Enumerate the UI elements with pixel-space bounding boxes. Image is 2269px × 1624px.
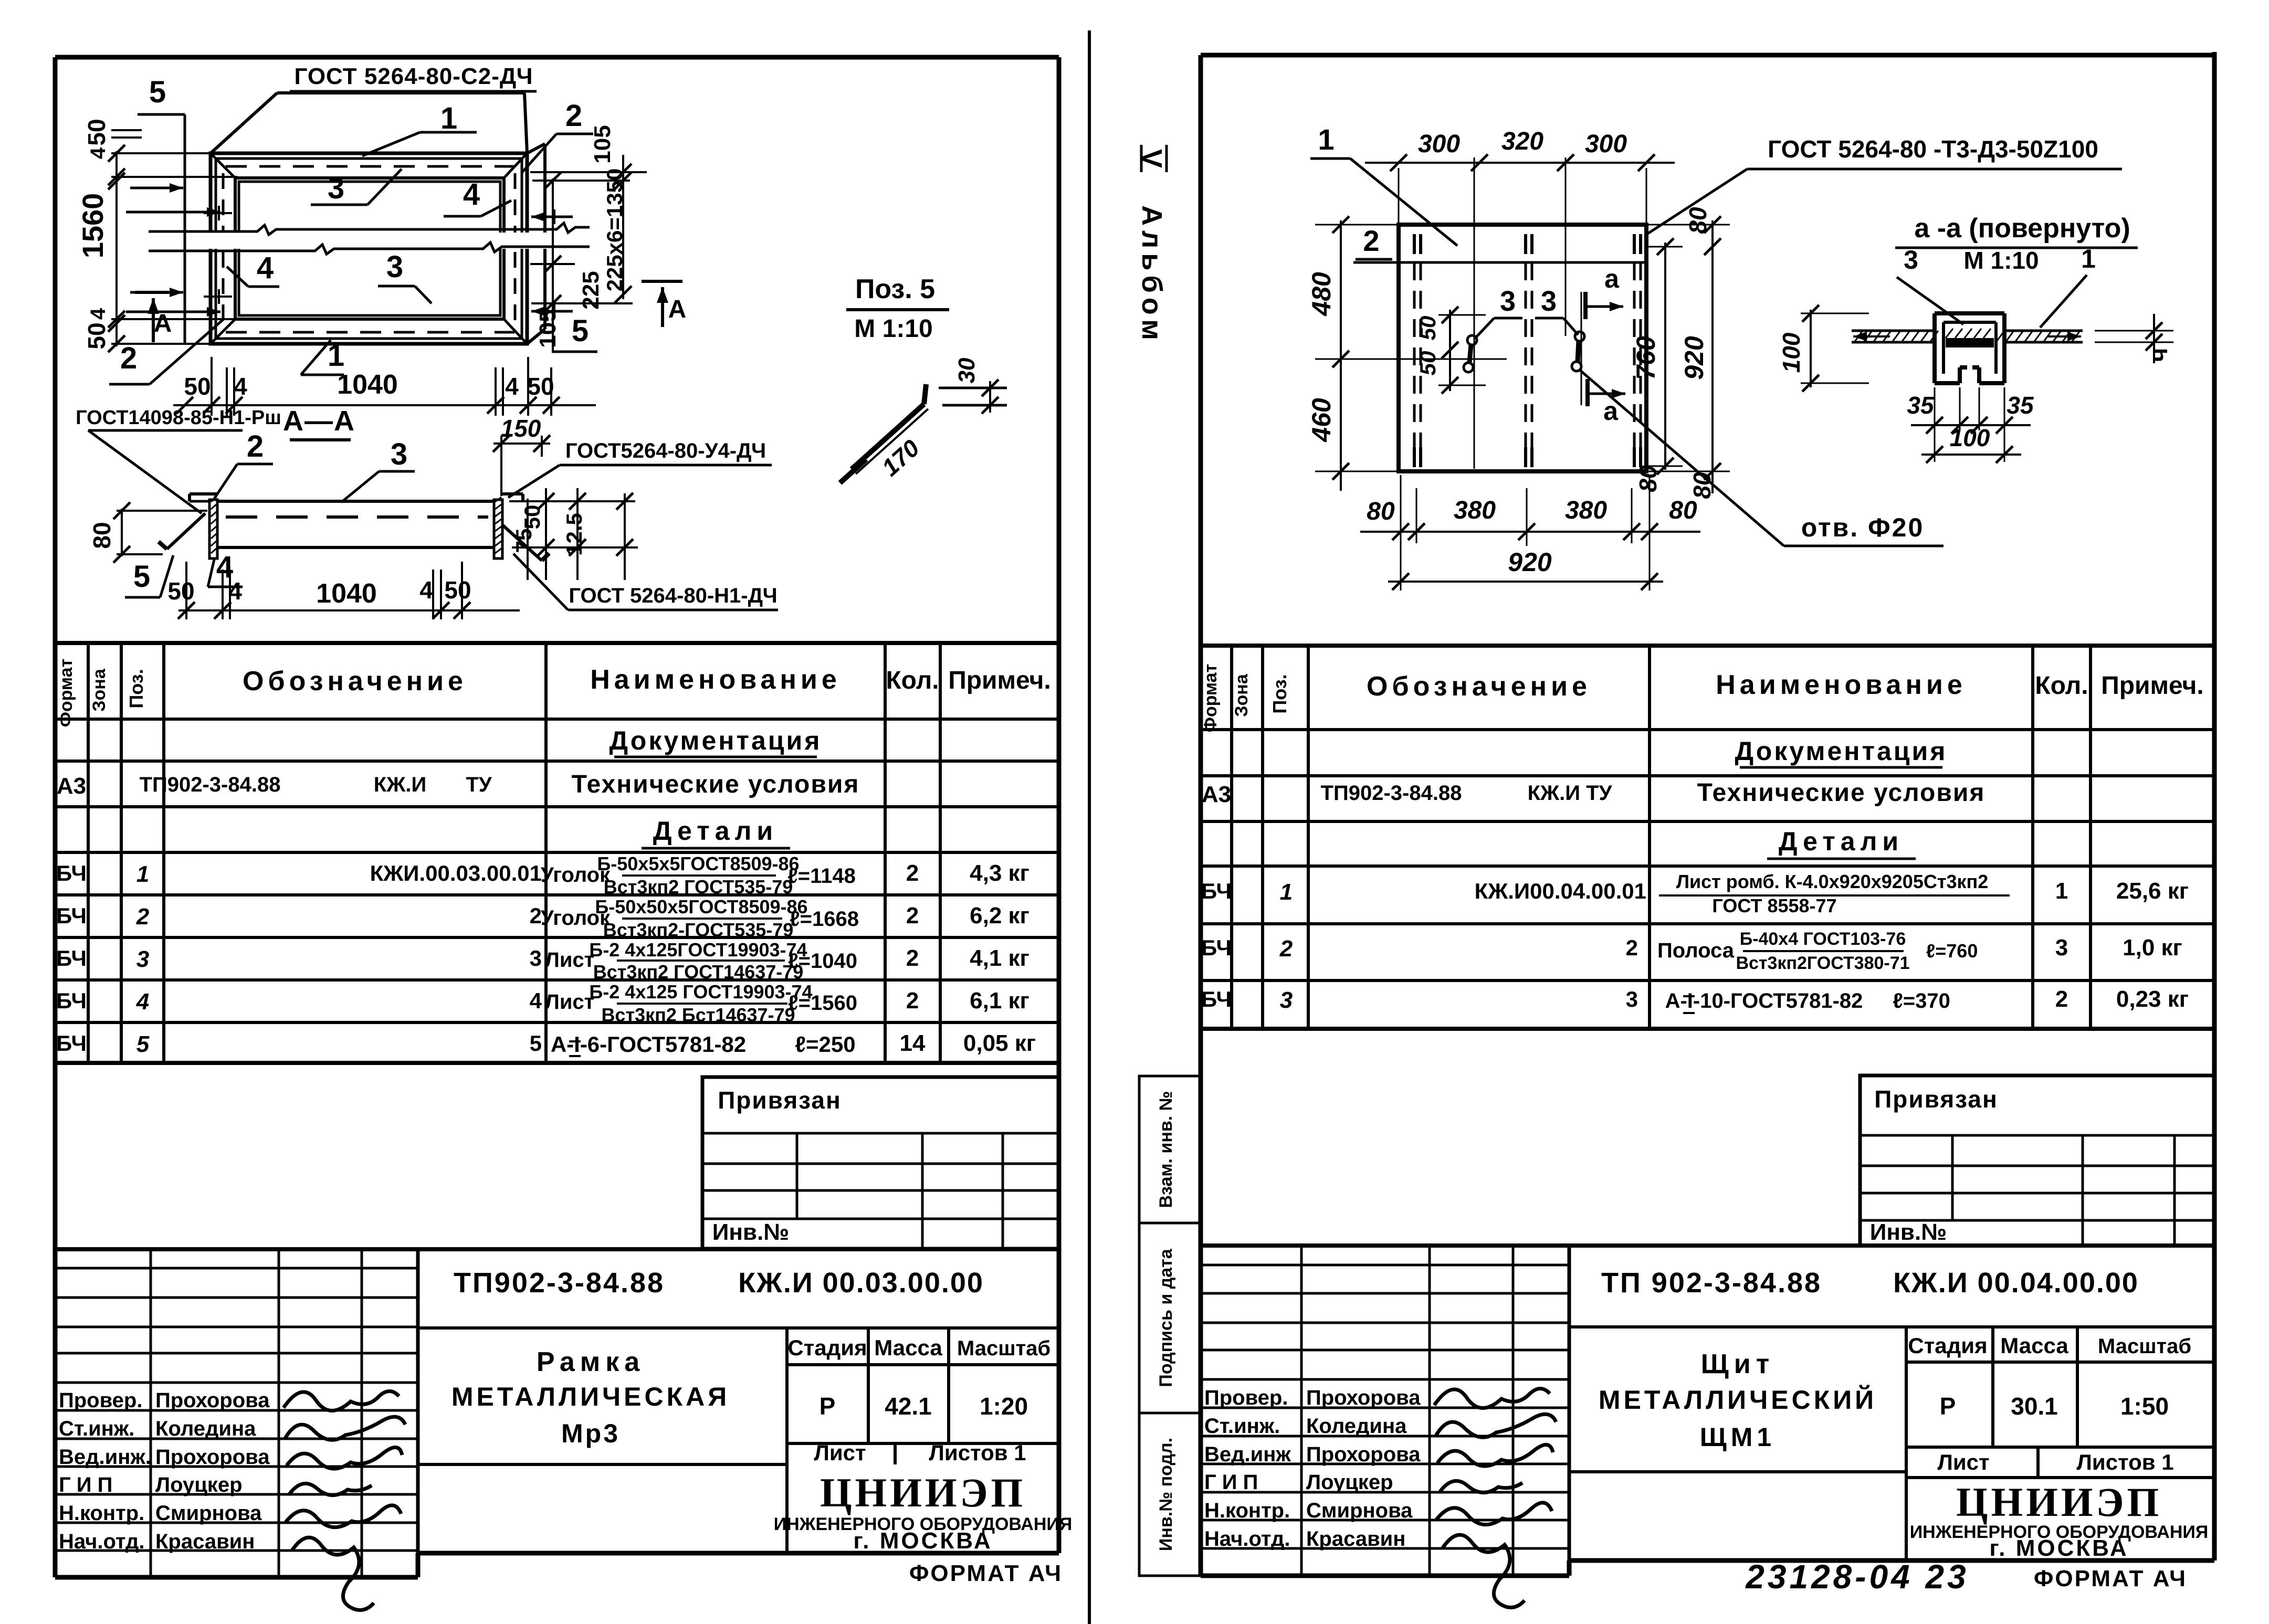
right table header kol — [2035, 672, 2088, 700]
dim text 75 sec — [511, 529, 536, 553]
svg-text:Зона: Зона — [1232, 673, 1252, 717]
svg-text:Вст3кп2 ГОСТ535-79: Вст3кп2 ГОСТ535-79 — [604, 876, 793, 898]
section plate — [217, 501, 494, 547]
svg-text:1:50: 1:50 — [2120, 1393, 2169, 1420]
svg-text:Ст.инж.: Ст.инж. — [1204, 1415, 1280, 1438]
svg-text:Мр3: Мр3 — [561, 1419, 620, 1448]
section mark a lower — [1588, 379, 1625, 426]
svg-text:3: 3 — [136, 946, 149, 972]
svg-text:5: 5 — [136, 1031, 150, 1057]
left titleblock left columns — [55, 1249, 418, 1577]
svg-text:50: 50 — [444, 576, 471, 604]
svg-text:Привязан: Привязан — [718, 1087, 842, 1114]
svg-text:Детали: Детали — [653, 816, 778, 846]
svg-text:2: 2 — [906, 860, 919, 886]
svg-text:А3: А3 — [57, 773, 86, 799]
svg-text:Поз.: Поз. — [1269, 674, 1290, 713]
svg-text:3: 3 — [1541, 286, 1557, 317]
dim 4 channel — [2095, 314, 2173, 363]
dim text 225x6 — [602, 168, 627, 292]
frame outer rectangle — [211, 153, 527, 344]
svg-text:3: 3 — [328, 171, 344, 205]
section left angle hatch — [211, 497, 216, 553]
svg-text:5: 5 — [530, 1031, 542, 1056]
svg-text:Красавин: Красавин — [155, 1530, 255, 1553]
svg-text:100: 100 — [1778, 332, 1805, 373]
dim 80 bottom right — [1634, 465, 1716, 499]
svg-text:ГОСТ 8558-77: ГОСТ 8558-77 — [1712, 895, 1836, 916]
frame inner opening — [235, 178, 504, 319]
svg-text:4: 4 — [234, 373, 247, 400]
dim 150 section — [493, 415, 550, 496]
left name ramka — [451, 1347, 730, 1448]
svg-text:3: 3 — [391, 437, 407, 471]
right table header naimenovanie — [1716, 670, 1967, 700]
svg-text:Провер.: Провер. — [59, 1389, 142, 1412]
label 3 upper — [311, 169, 402, 205]
svg-text:МЕТАЛЛИЧЕСКИЙ: МЕТАЛЛИЧЕСКИЙ — [1599, 1385, 1877, 1415]
svg-text:300: 300 — [1418, 130, 1460, 158]
svg-text:300: 300 — [1585, 130, 1627, 158]
svg-text:ФОРМАТ АЧ: ФОРМАТ АЧ — [909, 1560, 1063, 1586]
weld flag left — [159, 513, 205, 549]
svg-text:ч: ч — [2145, 348, 2172, 362]
label 3 section — [341, 437, 415, 502]
rod detail right — [1572, 332, 1584, 371]
channel bar pos3 — [1946, 338, 1994, 347]
label 4 section — [208, 550, 243, 587]
svg-text:М 1:10: М 1:10 — [1963, 247, 2039, 274]
svg-text:Документация: Документация — [1735, 736, 1948, 766]
frame corner mitre BR — [503, 318, 526, 343]
svg-text:А: А — [154, 310, 172, 338]
svg-text:Обозначение: Обозначение — [243, 666, 467, 697]
dim text 1560 — [76, 193, 109, 259]
otv leader — [1579, 370, 1784, 546]
svg-text:2: 2 — [906, 945, 919, 971]
svg-text:Наименование: Наименование — [1716, 670, 1967, 700]
svg-text:А: А — [668, 296, 687, 323]
page divider between sheets — [1088, 30, 1091, 1624]
svg-text:Вст3кп2 ГОСТ14637-79: Вст3кп2 ГОСТ14637-79 — [593, 961, 804, 983]
svg-text:105: 105 — [535, 309, 561, 347]
svg-text:ФОРМАТ АЧ: ФОРМАТ АЧ — [2034, 1566, 2187, 1591]
svg-text:Поз.: Поз. — [125, 669, 147, 708]
right doc number — [1601, 1267, 2139, 1299]
svg-text:5: 5 — [149, 75, 166, 109]
svg-text:Б-2 4х125 ГОСТ19903-74: Б-2 4х125 ГОСТ19903-74 — [589, 981, 812, 1003]
svg-text:4: 4 — [87, 308, 110, 320]
svg-text:Вед.инж: Вед.инж — [1204, 1443, 1291, 1466]
svg-text:50: 50 — [184, 373, 211, 400]
svg-text:50: 50 — [83, 119, 110, 145]
dim vert right2 — [622, 155, 624, 299]
left row 2 — [56, 896, 1030, 941]
svg-text:1040: 1040 — [337, 370, 398, 400]
svg-text:ℓ=1040: ℓ=1040 — [788, 950, 857, 973]
svg-text:КЖ.И ТУ: КЖ.И ТУ — [1528, 782, 1613, 805]
svg-text:Документация: Документация — [610, 726, 822, 755]
svg-text:2: 2 — [1626, 935, 1638, 960]
svg-text:г. МОСКВА: г. МОСКВА — [853, 1528, 992, 1554]
dim text 105 br — [535, 309, 561, 347]
svg-text:2: 2 — [1279, 936, 1293, 962]
label 5 right — [552, 314, 597, 352]
dim line 920 — [1388, 547, 1663, 590]
svg-text:460: 460 — [1307, 398, 1336, 442]
left table header poz — [125, 669, 147, 708]
svg-text:Обозначение: Обозначение — [1367, 671, 1591, 702]
svg-text:Н.контр.: Н.контр. — [1204, 1499, 1290, 1522]
margin stamp inv — [1139, 1413, 1202, 1576]
aa title — [1895, 213, 2138, 248]
weld label GOST 5264-80-C2-D4 — [290, 64, 537, 91]
right stadia header — [1908, 1333, 2191, 1358]
svg-text:Формат: Формат — [1201, 664, 1221, 732]
left titleblock outline — [55, 1247, 1059, 1251]
svg-text:Масса: Масса — [2000, 1333, 2068, 1358]
right privyazan box — [1860, 1075, 2214, 1246]
label 2 bottom left — [109, 319, 224, 384]
svg-text:380: 380 — [1454, 497, 1496, 524]
left table header naimenovanie — [590, 665, 841, 695]
right table dokumentacia — [1735, 736, 1948, 767]
dim 50 50 rods — [1415, 307, 1486, 394]
svg-text:30.1: 30.1 — [2011, 1393, 2058, 1420]
right privyazan grid — [1860, 1135, 2214, 1246]
svg-text:Детали: Детали — [1779, 827, 1904, 856]
svg-text:80: 80 — [1684, 207, 1711, 234]
svg-text:225: 225 — [578, 271, 604, 309]
svg-text:380: 380 — [1565, 497, 1607, 524]
dim line left vertical — [115, 151, 118, 346]
svg-text:35: 35 — [1907, 392, 1935, 419]
dim 50 br — [527, 373, 554, 400]
left privyazan label — [718, 1087, 842, 1114]
svg-text:г. МОСКВА: г. МОСКВА — [1989, 1535, 2128, 1561]
svg-text:760: 760 — [1631, 336, 1661, 380]
channel outer — [1935, 313, 2004, 383]
dim ext bottom plate — [1401, 475, 1650, 590]
dim 50 bl — [184, 373, 211, 400]
svg-text:ТП 902-3-84.88: ТП 902-3-84.88 — [1601, 1267, 1822, 1299]
svg-text:Вст3кп2-ГОСТ535-79: Вст3кп2-ГОСТ535-79 — [603, 919, 794, 941]
dim ext bottom section — [186, 562, 462, 619]
left stadia header — [787, 1335, 1051, 1360]
svg-text:А-I-10-ГОСТ5781-82: А-I-10-ГОСТ5781-82 — [1665, 989, 1863, 1013]
svg-text:ГОСТ5264-80-У4-ДЧ: ГОСТ5264-80-У4-ДЧ — [565, 439, 766, 462]
frame second line — [216, 159, 522, 339]
svg-text:3: 3 — [386, 250, 403, 284]
svg-text:80: 80 — [1669, 497, 1697, 524]
svg-text:М 1:10: М 1:10 — [854, 315, 932, 343]
svg-text:Масштаб: Масштаб — [957, 1337, 1051, 1360]
break band — [149, 223, 590, 254]
svg-text:2: 2 — [906, 988, 919, 1014]
svg-text:3: 3 — [1626, 987, 1638, 1011]
right names — [1306, 1386, 1421, 1551]
dim 320 — [1501, 128, 1543, 155]
svg-text:БЧ: БЧ — [56, 903, 87, 928]
weld tick left upper — [204, 206, 232, 220]
dim line bottom plate — [1360, 523, 1700, 540]
left table header zona — [89, 668, 109, 712]
svg-text:Альбом: Альбом — [1136, 205, 1168, 345]
svg-text:Р: Р — [820, 1393, 836, 1420]
dim 4 bl — [234, 373, 247, 400]
right signatures — [1434, 1388, 1556, 1607]
left roles — [59, 1389, 151, 1553]
dim ext right — [530, 172, 647, 303]
dim 4 secl — [228, 577, 242, 605]
svg-text:3: 3 — [1500, 286, 1516, 317]
svg-text:Н.контр.: Н.контр. — [59, 1502, 144, 1525]
svg-text:Наименование: Наименование — [590, 665, 841, 695]
label 2 top right — [521, 99, 593, 173]
left table detali — [642, 816, 790, 848]
plate dashed bar mid — [1526, 234, 1532, 467]
left privyazan box — [702, 1077, 1059, 1249]
svg-text:50: 50 — [167, 577, 194, 605]
svg-text:1040: 1040 — [316, 578, 377, 609]
section right angle — [494, 494, 523, 558]
left row 5 — [56, 1030, 1036, 1057]
svg-text:Лист: Лист — [545, 990, 595, 1014]
hatched plate strip — [1852, 329, 2083, 342]
box lid top face — [211, 93, 527, 153]
dim 80 bl — [1367, 498, 1395, 525]
right side arrows — [531, 209, 573, 319]
left list row — [814, 1440, 1026, 1465]
left stadia values — [820, 1393, 1028, 1420]
svg-text:1,0 кг: 1,0 кг — [2123, 935, 2182, 961]
svg-text:ЦНИИЭП: ЦНИИЭП — [820, 1470, 1026, 1515]
GOST U4 label — [508, 439, 772, 498]
svg-text:1: 1 — [2081, 244, 2096, 273]
svg-text:5: 5 — [572, 314, 589, 348]
dim right plate 920v — [1679, 216, 1721, 493]
dim 170 rod — [876, 434, 925, 481]
svg-text:2: 2 — [120, 341, 137, 375]
left row 4 — [56, 981, 1030, 1026]
right org — [1910, 1479, 2209, 1561]
left table row A3 — [57, 771, 860, 799]
svg-text:50: 50 — [527, 373, 554, 400]
svg-text:ℓ=370: ℓ=370 — [1893, 989, 1950, 1013]
svg-text:Примеч.: Примеч. — [948, 667, 1051, 694]
dim text 12.5 sec — [562, 513, 586, 556]
svg-text:Прохорова: Прохорова — [155, 1389, 270, 1412]
svg-text:80: 80 — [1367, 498, 1395, 525]
dim right plate 760 — [1631, 238, 1674, 474]
svg-text:4: 4 — [419, 576, 433, 604]
dim line top plate — [1365, 154, 1675, 171]
svg-text:2: 2 — [136, 904, 150, 930]
A-A title — [283, 405, 355, 440]
svg-text:50: 50 — [520, 505, 544, 530]
svg-text:КЖ.И: КЖ.И — [374, 773, 426, 796]
right format label — [2034, 1566, 2187, 1591]
svg-text:1: 1 — [1280, 879, 1293, 905]
svg-text:2: 2 — [1363, 224, 1379, 257]
dim 30 rod — [939, 357, 1007, 414]
dim 380 r — [1565, 497, 1607, 524]
svg-text:2: 2 — [2055, 986, 2068, 1012]
right stadia values — [1940, 1393, 2169, 1420]
svg-text:Ст.инж.: Ст.инж. — [59, 1417, 134, 1440]
svg-text:23128-04 23: 23128-04 23 — [1745, 1558, 1969, 1596]
svg-text:1560: 1560 — [76, 193, 109, 259]
right privyazan label — [1874, 1085, 1998, 1113]
svg-text:Вед.инж.: Вед.инж. — [59, 1446, 151, 1469]
dim 4 secr — [419, 576, 433, 604]
label 1 plate — [1310, 123, 1457, 246]
dim 50 secl — [167, 577, 194, 605]
svg-text:4,1 кг: 4,1 кг — [970, 945, 1030, 971]
dim ticks bottom section — [178, 602, 470, 619]
right table header poz — [1269, 674, 1290, 713]
svg-text:Формат: Формат — [56, 659, 76, 727]
svg-text:Взам. инв. №: Взам. инв. № — [1156, 1091, 1176, 1208]
section plate dashed axis — [226, 515, 488, 519]
svg-text:1: 1 — [1318, 123, 1334, 156]
svg-text:Г И П: Г И П — [1204, 1471, 1258, 1494]
svg-text:0,23 кг: 0,23 кг — [2116, 986, 2189, 1012]
svg-text:ℓ=250: ℓ=250 — [795, 1032, 855, 1057]
svg-text:3: 3 — [1904, 245, 1918, 275]
svg-text:Технические условия: Технические условия — [1697, 779, 1986, 807]
pos5 rod — [852, 384, 928, 474]
svg-text:Лист: Лист — [1937, 1450, 1989, 1474]
dim 80 top right — [1684, 207, 1721, 255]
right list row — [1937, 1450, 2173, 1474]
svg-text:КЖ.И 00.03.00.00: КЖ.И 00.03.00.00 — [738, 1267, 984, 1299]
svg-text:Стадия: Стадия — [1908, 1333, 1987, 1358]
svg-text:1:20: 1:20 — [980, 1393, 1028, 1420]
svg-text:105: 105 — [590, 125, 615, 163]
left table grid — [55, 643, 1059, 1063]
svg-text:БЧ: БЧ — [56, 1031, 87, 1056]
svg-text:ℓ=1668: ℓ=1668 — [790, 908, 859, 931]
svg-text:Коледина: Коледина — [155, 1417, 256, 1440]
svg-text:50: 50 — [83, 322, 110, 349]
label 3 rod left — [1476, 286, 1522, 337]
left table header kol — [886, 667, 939, 694]
svg-text:а: а — [1604, 264, 1620, 293]
svg-text:14: 14 — [900, 1030, 926, 1056]
left sheet frame — [55, 57, 1059, 1577]
dim 460 — [1307, 398, 1336, 442]
svg-text:2: 2 — [530, 903, 542, 928]
svg-text:Инв.№ подл.: Инв.№ подл. — [1156, 1438, 1176, 1551]
frame dashed contour — [223, 166, 515, 332]
svg-text:Б-50х50х5ГОСТ8509-86: Б-50х50х5ГОСТ8509-86 — [595, 896, 807, 918]
aa leader 3 — [1897, 277, 1963, 324]
otv label — [1784, 513, 1944, 546]
svg-text:МЕТАЛЛИЧЕСКАЯ: МЕТАЛЛИЧЕСКАЯ — [451, 1382, 730, 1411]
svg-text:3: 3 — [530, 946, 542, 971]
svg-text:Нач.отд.: Нач.отд. — [59, 1530, 144, 1553]
dim ext bottom topview — [212, 357, 551, 416]
right table grid — [1201, 646, 2214, 1029]
right titleblock outline — [1201, 1243, 2214, 1248]
left table header format — [56, 659, 76, 727]
svg-text:920: 920 — [1679, 336, 1709, 380]
left names — [155, 1389, 270, 1553]
svg-text:Поз. 5: Поз. 5 — [855, 274, 935, 304]
dim text 4 bottom — [87, 308, 110, 320]
label 1 top — [362, 101, 477, 156]
label 4 upper right — [444, 177, 511, 216]
svg-text:Стадия: Стадия — [787, 1335, 867, 1360]
left table header oboznachenie — [243, 666, 467, 697]
strip line 2 — [1353, 261, 1648, 264]
dim 100 channel — [1778, 305, 1869, 392]
svg-text:42.1: 42.1 — [885, 1393, 932, 1420]
svg-text:Масштаб: Масштаб — [2098, 1335, 2191, 1358]
right row 1 — [1201, 871, 2189, 916]
svg-text:Привязан: Привязан — [1874, 1085, 1998, 1113]
svg-text:Смирнова: Смирнова — [1306, 1499, 1413, 1522]
rod detail left — [1464, 335, 1477, 372]
plate outline — [1399, 225, 1646, 471]
dim text 50 top — [83, 119, 110, 145]
svg-text:Вст3кп2ГОСТ380-71: Вст3кп2ГОСТ380-71 — [1736, 953, 1909, 973]
section mark a upper — [1581, 264, 1623, 405]
dim 35 35 channel — [1907, 387, 2034, 434]
right titleblock cells — [1569, 1327, 2214, 1560]
svg-text:Инв.№: Инв.№ — [712, 1219, 790, 1245]
left doc number — [454, 1267, 984, 1299]
dim line bottom section — [178, 609, 520, 611]
dim text 50 bottom — [83, 322, 110, 349]
svg-text:3: 3 — [2055, 935, 2068, 961]
label 5 section — [125, 555, 173, 597]
svg-text:Прохорова: Прохорова — [1306, 1386, 1421, 1409]
margin stamp podpis — [1139, 1223, 1202, 1413]
svg-text:Б-2 4х125ГОСТ19903-74: Б-2 4х125ГОСТ19903-74 — [589, 939, 807, 961]
dim 1040 sec — [316, 578, 377, 609]
svg-text:1: 1 — [2055, 878, 2068, 904]
aa subtitle — [1904, 244, 2096, 275]
label 3 lower — [378, 250, 432, 303]
left format label — [909, 1560, 1063, 1586]
dim line bottom topview — [173, 404, 596, 406]
svg-text:Б-40х4 ГОСТ103-76: Б-40х4 ГОСТ103-76 — [1740, 929, 1906, 949]
svg-text:Подпись и дата: Подпись и дата — [1156, 1248, 1176, 1387]
svg-text:КЖИ.00.03.00.01: КЖИ.00.03.00.01 — [370, 861, 542, 885]
frame corner mitre TR — [503, 154, 526, 179]
left row 3 — [56, 939, 1030, 983]
right table row A3 — [1202, 779, 1986, 807]
label 4 lower left — [227, 251, 279, 287]
svg-text:12.5: 12.5 — [562, 513, 586, 556]
svg-text:25,6 кг: 25,6 кг — [2116, 878, 2189, 904]
margin stamp vzam — [1139, 1076, 1202, 1223]
svg-text:ℓ=760: ℓ=760 — [1926, 940, 1978, 962]
right table header oboznachenie — [1367, 671, 1591, 702]
GOST N1 label — [513, 554, 778, 610]
svg-text:Зона: Зона — [89, 668, 109, 712]
svg-text:150: 150 — [501, 415, 541, 442]
svg-text:Лист: Лист — [814, 1440, 866, 1465]
svg-text:А-I-6-ГОСТ5781-82: А-I-6-ГОСТ5781-82 — [551, 1032, 746, 1057]
svg-text:Вст3кп2 Бст14637-79: Вст3кп2 Бст14637-79 — [601, 1004, 795, 1026]
svg-text:Лист: Лист — [545, 948, 595, 972]
svg-text:80: 80 — [1634, 465, 1662, 492]
section A arrow right — [642, 281, 686, 327]
svg-text:920: 920 — [1508, 547, 1552, 577]
